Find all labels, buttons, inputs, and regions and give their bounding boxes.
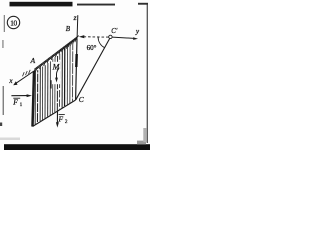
svg-text:F: F	[58, 114, 64, 123]
svg-text:F: F	[12, 97, 18, 106]
svg-text:C′: C′	[111, 28, 118, 35]
svg-text:C: C	[79, 95, 84, 104]
svg-text:60°: 60°	[87, 44, 97, 52]
svg-text:10: 10	[10, 18, 17, 27]
svg-text:M: M	[52, 62, 61, 71]
svg-text:1: 1	[20, 102, 23, 108]
svg-text:z: z	[73, 13, 77, 22]
svg-text:A: A	[29, 56, 35, 65]
svg-text:2: 2	[65, 119, 68, 125]
svg-text:B: B	[66, 25, 71, 33]
